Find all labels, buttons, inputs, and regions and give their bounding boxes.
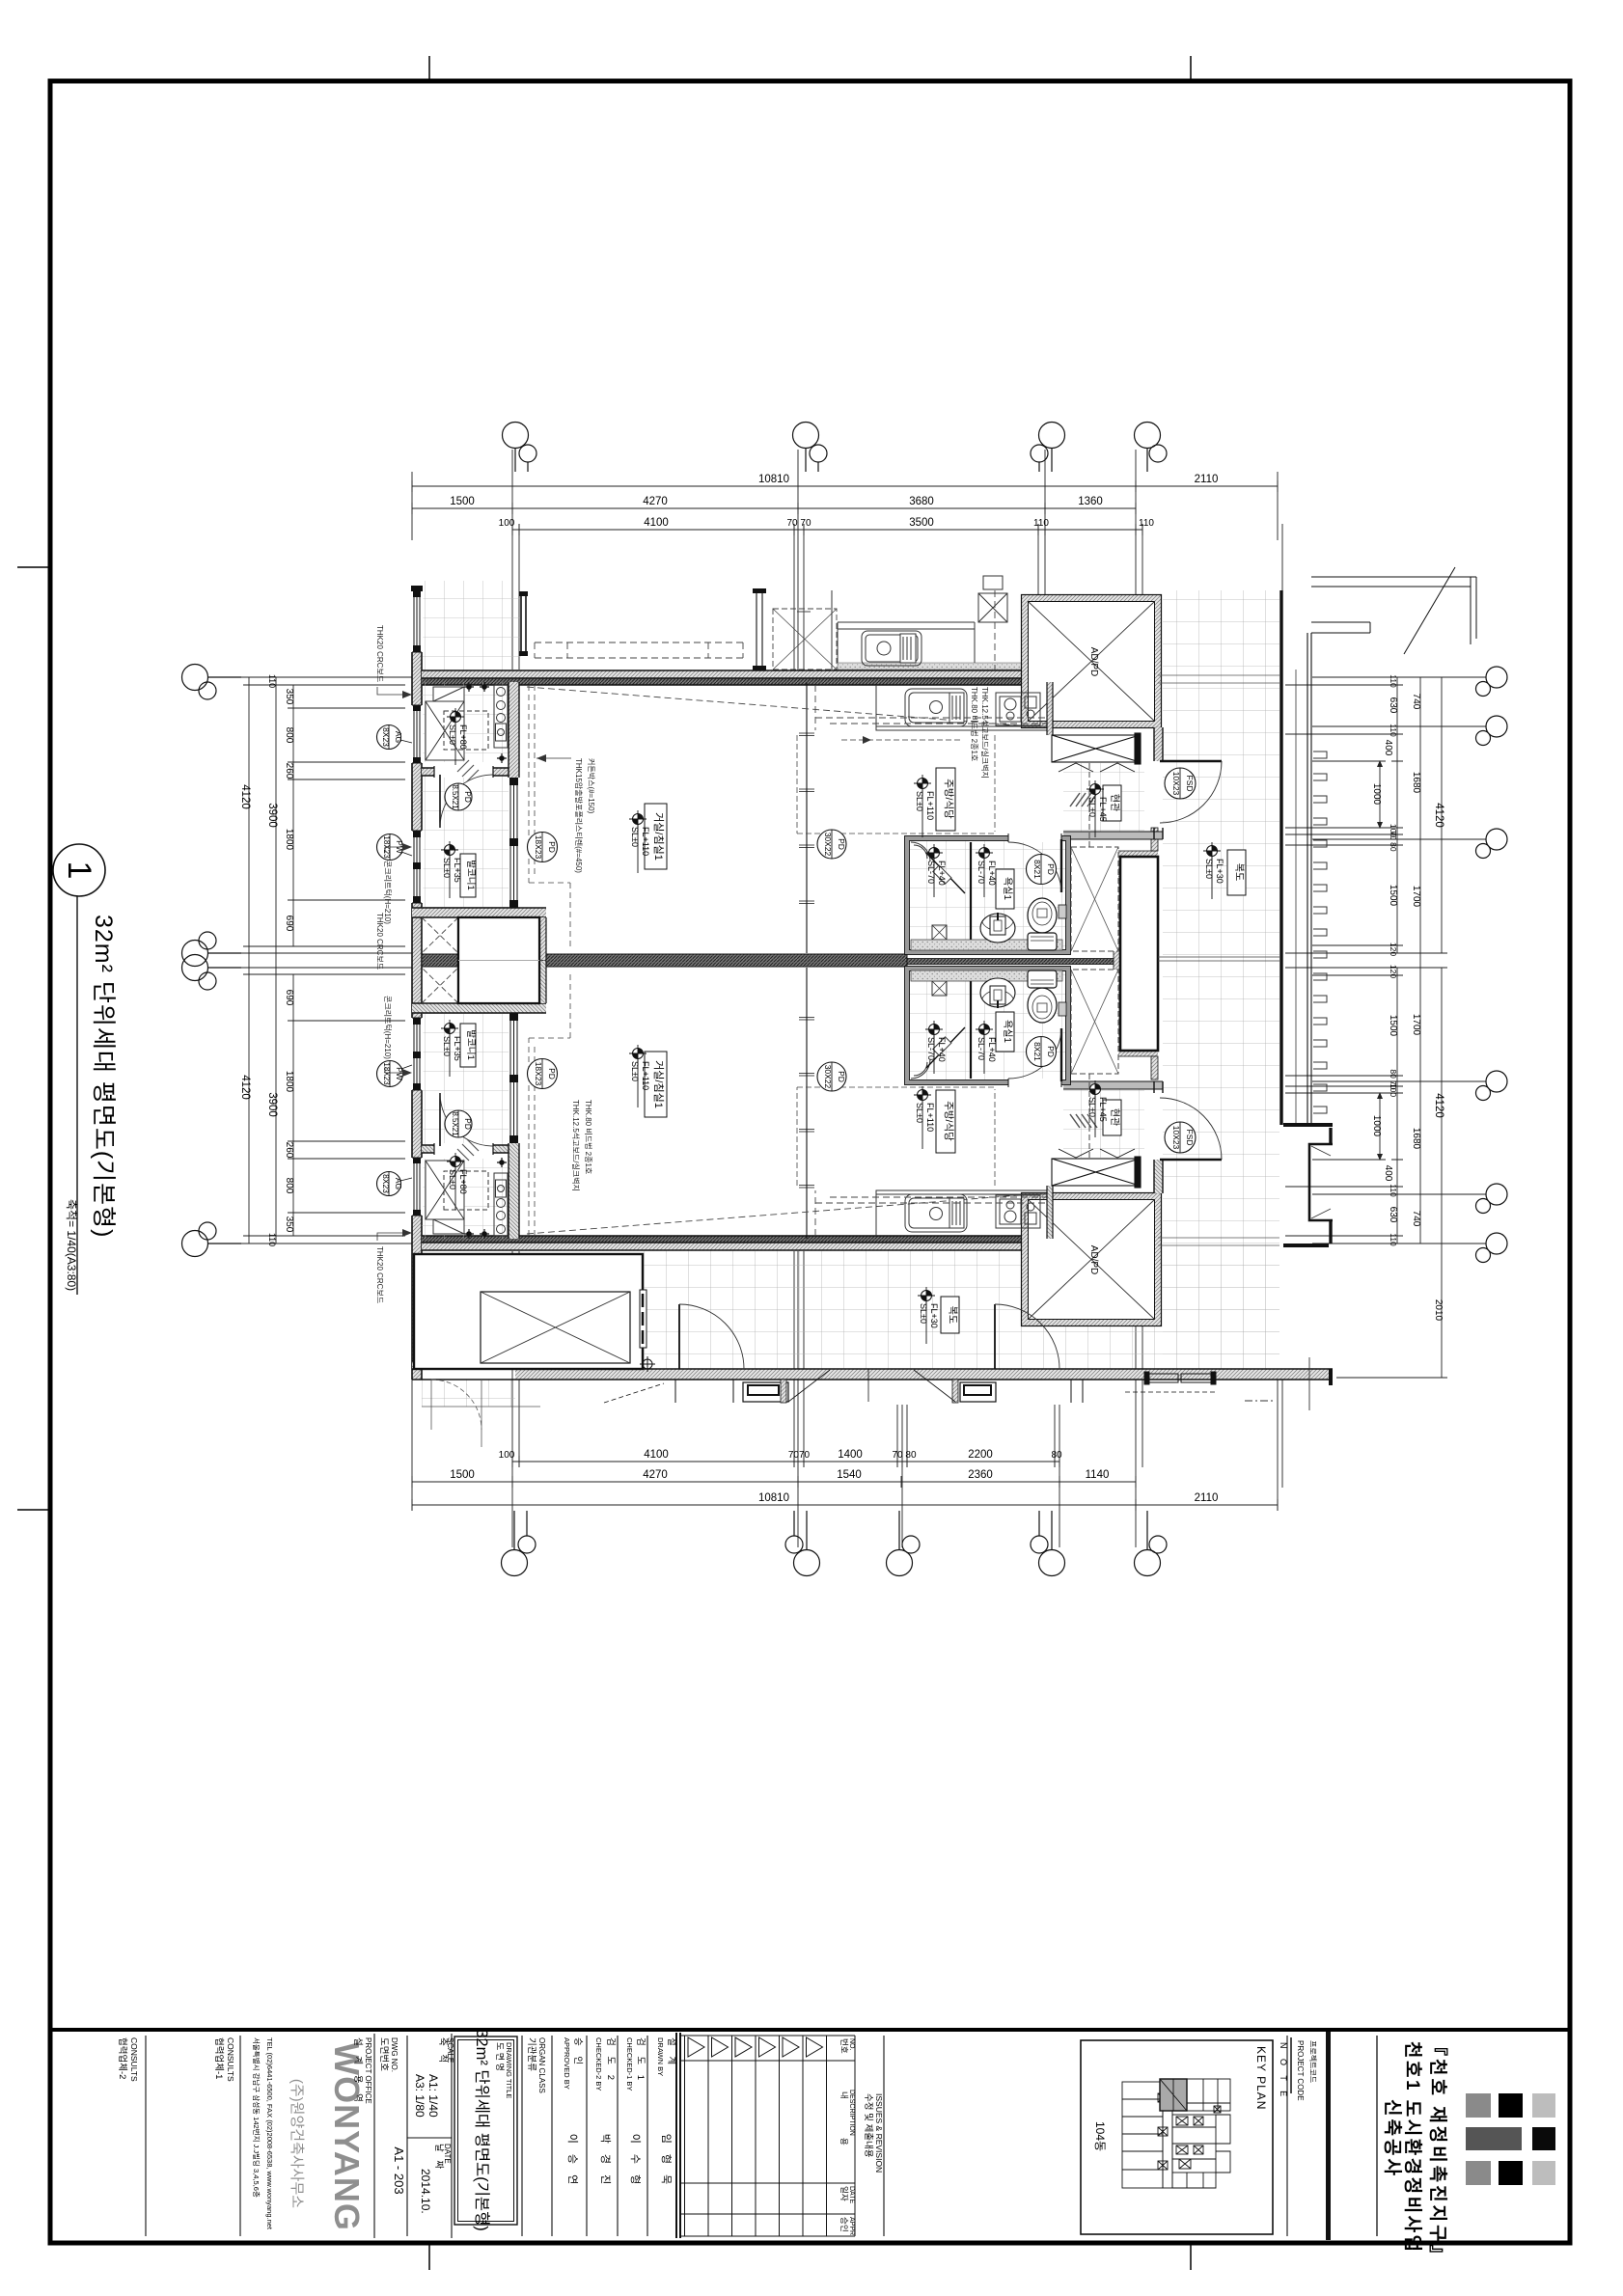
- window tag 18X23 PD A: [528, 833, 558, 862]
- svg-text:SCALE: SCALE: [446, 2037, 454, 2063]
- svg-text:CHECKED-1 BY: CHECKED-1 BY: [625, 2037, 634, 2091]
- client logo 3x3: [1466, 2093, 1555, 2185]
- right dim col segments: [1391, 677, 1403, 1244]
- svg-text:FL+80: FL+80: [458, 1169, 468, 1194]
- svg-text:A1 - 203: A1 - 203: [392, 2146, 406, 2194]
- window tag 30X22 A: [817, 830, 846, 859]
- svg-text:PD: PD: [1046, 863, 1056, 875]
- level corridor right: [1203, 842, 1224, 899]
- svg-text:32m² 단위세대 평면도(기본형): 32m² 단위세대 평면도(기본형): [90, 915, 117, 1239]
- svg-text:SL±0: SL±0: [915, 1103, 924, 1123]
- grid bubble top A: [503, 423, 529, 449]
- svg-text:수정 및 제출내용: 수정 및 제출내용: [863, 2093, 874, 2158]
- grid bubble bottom A: [502, 1550, 528, 1576]
- svg-text:110: 110: [1389, 724, 1398, 737]
- svg-text:(주)원양건축사사무소: (주)원양건축사사무소: [289, 2079, 305, 2208]
- svg-text:설 계 용 역: 설 계 용 역: [352, 2037, 364, 2106]
- escape box combined overlay: [458, 917, 539, 1003]
- svg-text:신축공사: 신축공사: [1382, 2099, 1403, 2178]
- bottom exterior wall band: [422, 1236, 1025, 1243]
- svg-text:70 80: 70 80: [892, 1450, 916, 1461]
- svg-text:THK20 CRC보드: THK20 CRC보드: [375, 913, 384, 970]
- room label balcony B: [460, 1024, 476, 1067]
- titleblock dividers: [146, 2034, 884, 2238]
- svg-text:690: 690: [284, 990, 294, 1006]
- grid bubble top D: [1135, 423, 1161, 449]
- svg-text:THK.12.5석고보드/실크벽지: THK.12.5석고보드/실크벽지: [571, 1100, 581, 1191]
- svg-text:검 도 2: 검 도 2: [605, 2037, 617, 2084]
- grid bubble left 1: [182, 665, 208, 691]
- grid bubble right r2: [1486, 716, 1507, 737]
- svg-text:4120: 4120: [239, 1075, 251, 1100]
- room label entry B: [1103, 1100, 1121, 1135]
- svg-text:복도: 복도: [1233, 863, 1245, 881]
- svg-text:커튼박스(#=150): 커튼박스(#=150): [587, 758, 596, 814]
- svg-text:690: 690: [284, 916, 294, 932]
- svg-text:주방/식당: 주방/식당: [943, 1101, 954, 1141]
- svg-text:FL+45: FL+45: [1098, 1097, 1108, 1122]
- svg-text:110: 110: [1033, 518, 1049, 529]
- utility door arc: [439, 775, 441, 828]
- svg-text:콘크리트턱(H=210): 콘크리트턱(H=210): [383, 861, 393, 924]
- curtain box dashed lines: [529, 685, 570, 950]
- svg-text:1500: 1500: [1388, 1015, 1398, 1037]
- balcony window wall column: [509, 682, 519, 778]
- svg-text:CONSULTS: CONSULTS: [226, 2037, 235, 2082]
- svg-text:THK.80 비드법 2종1호: THK.80 비드법 2종1호: [970, 687, 979, 761]
- washer box: [426, 687, 488, 760]
- svg-text:콘크리트턱(H=210): 콘크리트턱(H=210): [383, 996, 393, 1059]
- room label living B: [645, 1052, 667, 1117]
- escape hatch dashed X: [422, 917, 458, 953]
- corridor right double door: [1148, 1374, 1178, 1382]
- right dim col 4120: [1436, 677, 1447, 1378]
- svg-text:1700: 1700: [1411, 886, 1421, 908]
- utility-balcony wall: [422, 768, 511, 776]
- kitchen ceiling dashed: [797, 735, 995, 834]
- svg-text:SL±0: SL±0: [630, 827, 640, 847]
- corridor right wall: [1279, 590, 1282, 1125]
- window tag AG A: [377, 725, 413, 750]
- svg-text:FL+40: FL+40: [937, 1037, 947, 1062]
- svg-text:NO.: NO.: [848, 2038, 855, 2051]
- ceiling diagonal dashed: [527, 687, 1019, 725]
- bottom dim line 10810/2110: [412, 1499, 1278, 1511]
- svg-text:현관: 현관: [1109, 794, 1120, 811]
- svg-text:천호1 도시환경정비사업: 천호1 도시환경정비사업: [1402, 2041, 1423, 2255]
- svg-text:8X21: 8X21: [1032, 860, 1042, 879]
- svg-text:FL+110: FL+110: [641, 827, 650, 856]
- svg-text:SL±0: SL±0: [630, 1061, 640, 1081]
- svg-text:설 계: 설 계: [666, 2037, 677, 2068]
- svg-text:110: 110: [1139, 518, 1154, 529]
- svg-text:FL+30: FL+30: [929, 1303, 939, 1328]
- svg-text:1360: 1360: [1078, 496, 1103, 507]
- svg-text:8X21: 8X21: [1032, 1042, 1042, 1061]
- svg-text:800: 800: [284, 1178, 294, 1194]
- svg-text:CHECKED-2 BY: CHECKED-2 BY: [594, 2037, 603, 2091]
- svg-text:260: 260: [284, 763, 294, 779]
- left dim col 4120: [243, 677, 255, 1244]
- door tag 8X21 B: [1027, 1037, 1057, 1067]
- svg-text:18X23: 18X23: [534, 835, 543, 860]
- bathroom block: [905, 834, 1071, 955]
- wall axis lines across corridor: [1158, 675, 1279, 1245]
- svg-text:N O T E: N O T E: [1279, 2042, 1288, 2100]
- project panel border: [1326, 2032, 1331, 2240]
- top dim line row3: [512, 524, 1142, 535]
- right 1000 arrow dims: [1379, 761, 1381, 1160]
- room label bath B: [996, 1012, 1014, 1052]
- svg-text:검 도 1: 검 도 1: [635, 2037, 646, 2084]
- grid bubble bottom B: [794, 1550, 820, 1576]
- svg-text:110: 110: [1389, 674, 1398, 688]
- svg-text:1140: 1140: [1086, 1469, 1110, 1481]
- fold mark top 1: [428, 56, 430, 79]
- svg-text:1500: 1500: [450, 496, 475, 507]
- svg-text:KEY PLAN: KEY PLAN: [1254, 2046, 1268, 2110]
- AD/PD big shaft top: [1022, 595, 1162, 728]
- svg-text:70 80: 70 80: [1389, 831, 1398, 852]
- svg-text:2360: 2360: [968, 1469, 993, 1481]
- door tag FSD A: [1165, 768, 1196, 799]
- grid bubble bottom B2: [887, 1550, 913, 1576]
- svg-text:104동: 104동: [1093, 2121, 1107, 2151]
- svg-text:PROJECT CODE: PROJECT CODE: [1296, 2040, 1305, 2101]
- svg-text:FL+110: FL+110: [925, 1103, 935, 1132]
- exterior left wall: [412, 586, 422, 1380]
- entry hatch patch: [1070, 793, 1097, 806]
- svg-text:ORGAN CLASS: ORGAN CLASS: [537, 2037, 546, 2093]
- level balcony B: [441, 1020, 462, 1077]
- svg-text:100: 100: [499, 518, 515, 529]
- svg-text:260: 260: [284, 1142, 294, 1159]
- svg-text:350: 350: [284, 1216, 294, 1233]
- svg-text:18X23: 18X23: [534, 1062, 543, 1086]
- left dim col 3900: [270, 677, 282, 1244]
- svg-text:FL+40: FL+40: [987, 1037, 997, 1062]
- svg-text:10810: 10810: [758, 474, 789, 485]
- svg-text:1800: 1800: [284, 829, 294, 851]
- svg-text:FSD: FSD: [1185, 776, 1195, 792]
- corridor bottom wall: [515, 1369, 1333, 1380]
- elevator hall white box: [1114, 828, 1158, 1080]
- svg-text:4270: 4270: [643, 496, 668, 507]
- svg-text:1000: 1000: [1371, 1115, 1382, 1137]
- svg-text:SL±0: SL±0: [915, 791, 924, 811]
- svg-text:1800: 1800: [284, 1071, 294, 1093]
- stair block: [414, 1254, 646, 1369]
- corridor tile small left stub: [422, 1380, 515, 1407]
- svg-text:욕실1: 욕실1: [1002, 877, 1013, 900]
- svg-text:발코니1: 발코니1: [465, 860, 476, 890]
- svg-text:THK15압출발포폴리스티렌(#=450): THK15압출발포폴리스티렌(#=450): [574, 758, 584, 873]
- revision table: [680, 2036, 855, 2236]
- grid bubble left 4: [182, 1231, 208, 1257]
- svg-text:3680: 3680: [909, 496, 934, 507]
- neighbor dashed shaft box: [773, 609, 837, 670]
- svg-text:FL+45: FL+45: [1098, 797, 1108, 822]
- AG window in left wall: [411, 705, 424, 763]
- svg-text:120: 120: [1389, 965, 1398, 978]
- level shower A: [925, 844, 947, 897]
- svg-text:번호: 번호: [839, 2038, 849, 2054]
- level entry A: [1087, 780, 1108, 837]
- svg-text:DRAWN BY: DRAWN BY: [656, 2037, 665, 2076]
- survey cross symbol: [640, 1356, 655, 1372]
- level kitchen B: [914, 1086, 935, 1149]
- utility counter: [494, 685, 508, 748]
- door tag 8X21 A: [1027, 855, 1057, 885]
- neighbor shaft boundary dashed: [994, 590, 996, 670]
- bottom extension lines: [412, 1251, 1282, 1547]
- svg-text:80: 80: [1051, 1450, 1062, 1461]
- grid bubble right r3: [1486, 829, 1507, 850]
- svg-text:AG: AG: [394, 731, 403, 743]
- svg-text:DATE: DATE: [848, 2186, 855, 2203]
- svg-text:70 70: 70 70: [786, 518, 811, 529]
- corridor floor tile bottom arm: [643, 1246, 1279, 1369]
- svg-text:박 경 진: 박 경 진: [599, 2134, 612, 2188]
- living partition window line: [806, 682, 808, 953]
- svg-text:TEL (02)6441-6500, FAX (02)200: TEL (02)6441-6500, FAX (02)2008-6538, ww…: [265, 2037, 274, 2230]
- balcony bottom wall: [412, 908, 546, 917]
- grid bubble left 3: [182, 955, 208, 981]
- svg-text:APPROVED BY: APPROVED BY: [563, 2037, 571, 2090]
- svg-text:SL±0: SL±0: [442, 1036, 452, 1056]
- right wall below bay centerline: [1308, 1357, 1310, 1410]
- svg-text:서울특별시 강남구 삼성동 142번지 J.J빌딩 3,4: 서울특별시 강남구 삼성동 142번지 J.J빌딩 3,4,5,6층: [252, 2037, 261, 2198]
- key plan box: [1081, 2040, 1273, 2234]
- neighbor unit partial kitchen top: [832, 576, 1022, 670]
- window tag PW A: [377, 834, 413, 861]
- kitchen-entry wall: [1047, 682, 1053, 735]
- svg-text:SL-70: SL-70: [977, 861, 986, 884]
- shaft dashed boundary in entry: [1088, 763, 1090, 847]
- svg-text:이 수 형: 이 수 형: [629, 2134, 642, 2188]
- svg-text:복도: 복도: [947, 1306, 958, 1324]
- PW window in left wall: [411, 831, 424, 903]
- lower units partial door 1: [604, 1369, 868, 1403]
- svg-text:FL+110: FL+110: [641, 1061, 650, 1090]
- top dim line 10810/2110: [412, 480, 1278, 492]
- svg-text:PD: PD: [463, 1118, 473, 1130]
- svg-text:3900: 3900: [266, 803, 278, 828]
- grid bubble top C: [1039, 423, 1065, 449]
- below-left partial doors dashed: [431, 1380, 481, 1430]
- window tag 30X22 B: [817, 1062, 846, 1091]
- balcony1 tile: [422, 772, 509, 908]
- svg-text:2110: 2110: [1195, 474, 1219, 485]
- svg-text:날 짜: 날 짜: [433, 2144, 444, 2172]
- svg-text:승인: 승인: [839, 2217, 849, 2232]
- svg-text:협력업체-1: 협력업체-1: [213, 2037, 225, 2079]
- svg-text:4100: 4100: [644, 1449, 669, 1461]
- svg-text:SL±0: SL±0: [448, 724, 457, 745]
- corridor door to stair: [678, 1304, 680, 1369]
- svg-text:승 인: 승 인: [572, 2037, 583, 2068]
- grid bubble right r5: [1486, 1184, 1507, 1205]
- svg-text:4120: 4120: [1433, 1093, 1444, 1118]
- svg-text:이 승 연: 이 승 연: [566, 2134, 579, 2188]
- svg-text:8X23: 8X23: [381, 1174, 391, 1193]
- room label balcony A: [460, 854, 476, 897]
- svg-text:PD: PD: [837, 1071, 846, 1082]
- svg-text:100: 100: [1389, 1083, 1398, 1097]
- level wc A: [976, 844, 997, 897]
- top dim line row2: [412, 503, 1136, 514]
- svg-text:발코니1: 발코니1: [465, 1029, 476, 1060]
- svg-text:7070: 7070: [788, 1450, 811, 1461]
- svg-text:800: 800: [284, 727, 294, 744]
- svg-text:PD: PD: [837, 838, 846, 850]
- svg-text:욕실1: 욕실1: [1002, 1020, 1013, 1043]
- note column: [1286, 2036, 1288, 2236]
- svg-text:630: 630: [1388, 697, 1398, 714]
- svg-text:DATE: DATE: [443, 2144, 452, 2164]
- svg-text:SL±0: SL±0: [448, 1169, 457, 1189]
- grid bubble right r6: [1486, 1233, 1507, 1254]
- svg-text:100: 100: [499, 1450, 515, 1461]
- grid bubble top B: [793, 423, 819, 449]
- room label entry A: [1103, 785, 1121, 821]
- svg-text:400: 400: [1383, 1165, 1393, 1182]
- corridor floor tile vertical arm: [1163, 590, 1279, 1370]
- mid shaft AD/PD dashed: [1071, 847, 1118, 951]
- title block top rule: [52, 2028, 1568, 2032]
- svg-text:4120: 4120: [239, 784, 251, 809]
- svg-text:DWG NO.: DWG NO.: [390, 2037, 399, 2072]
- svg-text:THK20 CRC보드: THK20 CRC보드: [375, 1246, 384, 1303]
- svg-text:DRAWING TITLE: DRAWING TITLE: [505, 2042, 513, 2098]
- drawing title underline: [76, 896, 78, 1295]
- drawing title circle 1: [53, 844, 105, 896]
- svg-text:8.5X21: 8.5X21: [451, 1111, 459, 1136]
- corridor end window bay: [1309, 1144, 1333, 1220]
- unit entry door FSD: [1160, 760, 1222, 763]
- svg-text:내용: 내용: [839, 2091, 849, 2184]
- entry tile: [1063, 763, 1144, 832]
- neighbor window in left wall: [411, 590, 424, 652]
- svg-text:110: 110: [267, 1233, 277, 1246]
- fold mark left 2: [17, 1509, 48, 1511]
- level kitchen A: [914, 775, 935, 837]
- svg-text:32m² 단위세대 평면도(기본형): 32m² 단위세대 평면도(기본형): [473, 2029, 491, 2231]
- svg-text:2010: 2010: [1433, 1299, 1444, 1322]
- svg-text:8X23: 8X23: [381, 727, 391, 747]
- fold mark bottom 1: [428, 2245, 430, 2270]
- svg-text:4270: 4270: [643, 1469, 668, 1481]
- svg-text:4120: 4120: [1433, 803, 1444, 828]
- fold mark top 2: [1190, 56, 1192, 79]
- svg-text:APPR: APPR: [848, 2217, 855, 2235]
- svg-text:거실/침실1: 거실/침실1: [652, 1060, 665, 1108]
- svg-text:740: 740: [1411, 1211, 1421, 1227]
- svg-text:PD: PD: [463, 791, 473, 803]
- svg-text:PD: PD: [547, 841, 557, 853]
- neighbor wall caps: [753, 588, 766, 593]
- svg-text:1400: 1400: [838, 1449, 863, 1461]
- svg-text:PD: PD: [1046, 1046, 1056, 1057]
- svg-text:A1: 1/40: A1: 1/40: [426, 2074, 440, 2118]
- svg-text:2200: 2200: [968, 1449, 993, 1461]
- svg-text:10810: 10810: [758, 1492, 789, 1504]
- project panel divider: [1376, 2036, 1378, 2236]
- level balcony A: [441, 841, 462, 898]
- level wc B: [976, 1021, 997, 1074]
- escape white box: [458, 917, 539, 961]
- left wall top cap: [411, 586, 423, 591]
- svg-text:일자: 일자: [839, 2186, 849, 2201]
- svg-text:1540: 1540: [837, 1469, 862, 1481]
- level utility B: [447, 1153, 468, 1210]
- svg-text:AD/PD: AD/PD: [1088, 1245, 1099, 1275]
- bottom-left wall jog: [412, 1361, 515, 1369]
- window tag PW B: [377, 1061, 413, 1087]
- top extension lines: [412, 450, 1282, 672]
- svg-text:SL-70: SL-70: [926, 1037, 936, 1060]
- drawing title box: [454, 2036, 517, 2225]
- svg-text:THK20 CRC보드: THK20 CRC보드: [375, 625, 384, 682]
- neighbor wall x540: [521, 595, 526, 651]
- svg-text:3500: 3500: [909, 517, 934, 529]
- kitchen dashed cabinets: [815, 718, 1052, 724]
- svg-text:SL±0: SL±0: [1087, 1097, 1097, 1117]
- room label kitchen A: [936, 768, 955, 831]
- svg-text:3900: 3900: [266, 1092, 278, 1117]
- party axis across corridor: [1158, 957, 1279, 961]
- svg-text:30X22: 30X22: [823, 1065, 833, 1089]
- entry door stubs: [1154, 727, 1163, 761]
- svg-text:프로젝트코드: 프로젝트코드: [1308, 2040, 1318, 2083]
- svg-text:THK.12.5석고보드/실크벽지: THK.12.5석고보드/실크벽지: [980, 687, 990, 779]
- svg-text:AD/PD: AD/PD: [1088, 647, 1099, 677]
- AD/PD big shaft bottom: [1022, 1193, 1162, 1326]
- grid bubble right r1: [1486, 667, 1507, 688]
- svg-text:8.5X21: 8.5X21: [451, 784, 459, 809]
- door tag 8.5X21 B: [445, 1110, 473, 1137]
- svg-text:1: 1: [61, 861, 97, 880]
- svg-text:SL±0: SL±0: [1087, 797, 1097, 817]
- unit A geometry: [411, 682, 1223, 961]
- svg-text:주방/식당: 주방/식당: [943, 779, 954, 819]
- bottom dim line row2: [412, 1476, 1136, 1488]
- party wall dark band: [422, 954, 907, 967]
- svg-text:2110: 2110: [1195, 1492, 1219, 1504]
- room label corridor right: [1227, 850, 1246, 895]
- svg-text:PROJECT OFFICE: PROJECT OFFICE: [364, 2037, 372, 2104]
- right dim col 740/1680/1700/2010: [1415, 677, 1426, 1244]
- svg-text:협력업체-2: 협력업체-2: [117, 2037, 128, 2079]
- svg-text:1500: 1500: [1388, 885, 1398, 907]
- svg-text:현관: 현관: [1109, 1108, 1120, 1126]
- svg-text:A3: 1/80: A3: 1/80: [413, 2074, 426, 2118]
- svg-text:PD: PD: [547, 1068, 557, 1080]
- svg-text:SL±0: SL±0: [1204, 859, 1214, 879]
- grid bubble bottom C: [1039, 1550, 1065, 1576]
- entry bottom wall: [1063, 832, 1163, 839]
- top right wing partial: [1311, 567, 1476, 654]
- svg-text:110: 110: [267, 674, 277, 688]
- level living B: [629, 1045, 650, 1107]
- svg-text:740: 740: [1411, 694, 1421, 710]
- svg-text:FL+40: FL+40: [987, 861, 997, 886]
- svg-text:DESCRIPTION: DESCRIPTION: [848, 2090, 855, 2136]
- svg-text:SL-70: SL-70: [977, 1037, 986, 1060]
- grid bubble bottom D: [1135, 1550, 1161, 1576]
- neighbor curtain box dashed: [535, 642, 743, 658]
- room label bath A: [996, 869, 1014, 909]
